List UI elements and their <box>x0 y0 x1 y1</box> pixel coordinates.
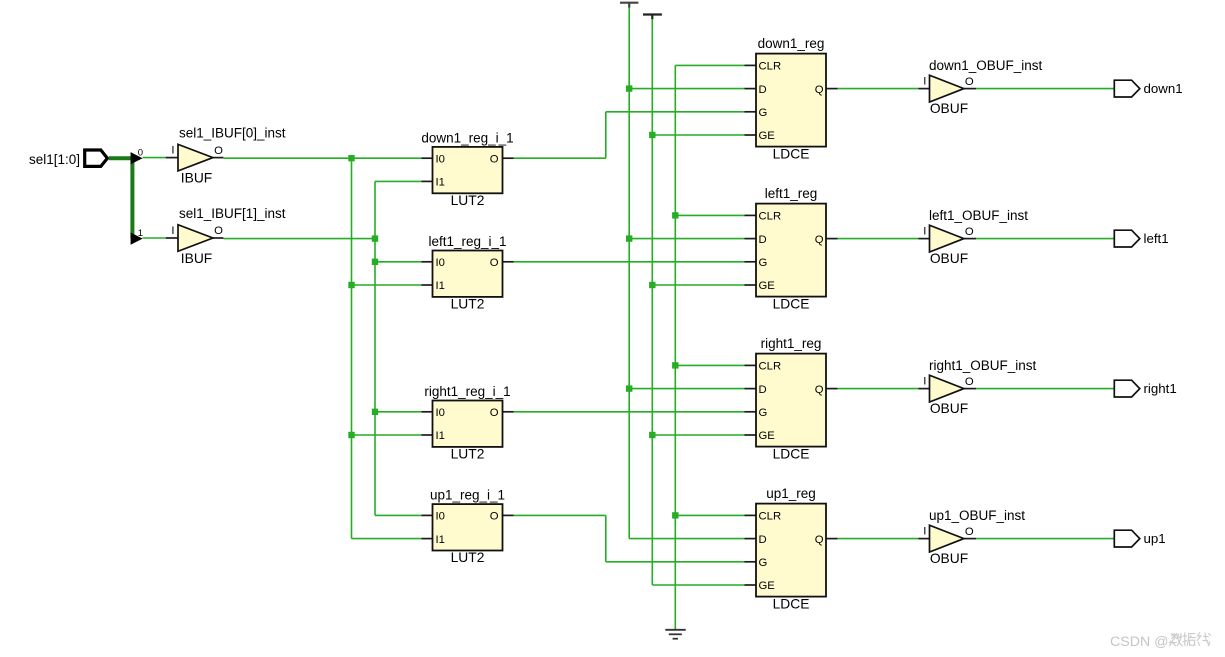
svg-text:OBUF: OBUF <box>930 101 968 116</box>
svg-text:D: D <box>759 534 767 546</box>
svg-text:I: I <box>923 225 926 237</box>
svg-text:CSDN @: CSDN @ <box>1110 634 1169 650</box>
svg-text:up1_OBUF_inst: up1_OBUF_inst <box>929 508 1025 523</box>
wire tap0 to IBUF0 input <box>143 157 166 159</box>
port up1 <box>1114 530 1140 547</box>
svg-text:CLR: CLR <box>759 61 782 73</box>
svg-text:Q: Q <box>815 84 824 96</box>
wire net left1_OBUF output to port <box>976 238 1114 240</box>
register left1_reg LDCE <box>756 204 826 297</box>
wire net sel1_IBUF[0]: vertical trunk x=351.5 <box>351 158 353 538</box>
port sel1[1:0] <box>85 150 108 166</box>
wire net sel1_IBUF[1]: branch to left1 LUT I0 <box>375 261 422 263</box>
svg-text:I: I <box>171 225 174 237</box>
wire net sel1_IBUF[1]: branch to right1 LUT I0 <box>375 411 422 413</box>
junction ground net at up1 CLR row <box>672 512 678 518</box>
svg-text:LDCE: LDCE <box>773 596 810 611</box>
wire net sel1_IBUF[0]: IBUF0 output to down1 LUT I0 <box>223 157 421 159</box>
svg-text:Q: Q <box>815 534 824 546</box>
junction power net 2 at right1 GE row <box>649 432 655 438</box>
svg-text:left1_reg: left1_reg <box>765 186 818 201</box>
wire power net 1 vertical trunk <box>628 8 630 539</box>
junction power net 2 at down1 GE row <box>649 132 655 138</box>
junction ground net at right1 CLR row <box>672 362 678 368</box>
svg-text:left1: left1 <box>1144 231 1169 246</box>
wire net up1_reg_i_1_n_0 to up1_reg G pin <box>606 561 745 563</box>
wire net right1 from right1_reg Q to OBUF <box>838 388 919 390</box>
svg-text:I0: I0 <box>436 257 445 269</box>
wire power net 2 vertical trunk <box>651 19 653 585</box>
bus sel1[1:0] horizontal segment <box>109 156 133 160</box>
wire power net 2 to right1_reg GE pin <box>652 434 744 436</box>
svg-text:G: G <box>759 257 768 269</box>
junction power net 2 at left1 GE row <box>649 282 655 288</box>
svg-text:down1_reg: down1_reg <box>758 36 825 51</box>
svg-text:LUT2: LUT2 <box>451 550 485 565</box>
svg-text:G: G <box>759 557 768 569</box>
junction power net 1 at right1 D row <box>626 385 632 391</box>
svg-text:OBUF: OBUF <box>930 251 968 266</box>
junction net sel1_IBUF[1] at left1 I0 row <box>372 259 378 265</box>
svg-text:OBUF: OBUF <box>930 401 968 416</box>
wire power net 2 to left1_reg GE pin <box>652 284 744 286</box>
junction net sel1_IBUF[1] at right1 I0 row <box>372 409 378 415</box>
wire net left1_reg_i_1_n_0 to left1_reg G pin <box>514 261 745 263</box>
bus sel1[1:0] vertical segment <box>130 156 134 238</box>
svg-text:Q: Q <box>815 234 824 246</box>
register down1_reg LDCE <box>756 54 826 147</box>
junction net sel1_IBUF[1] at IBUF1 output row <box>372 235 378 241</box>
svg-text:I0: I0 <box>436 407 445 419</box>
svg-text:D: D <box>759 384 767 396</box>
svg-text:1: 1 <box>138 228 143 239</box>
svg-text:CLR: CLR <box>759 211 782 223</box>
svg-text:D: D <box>759 84 767 96</box>
junction net sel1_IBUF[0] at left1 I1 row <box>348 282 354 288</box>
LUT2 up1_reg_i_1 <box>433 504 503 550</box>
svg-text:IBUF: IBUF <box>181 251 212 266</box>
svg-text:G: G <box>759 407 768 419</box>
ground symbol const0 <box>665 629 685 631</box>
svg-text:up1_reg_i_1: up1_reg_i_1 <box>430 488 505 503</box>
svg-text:I1: I1 <box>436 430 445 442</box>
svg-text:CLR: CLR <box>759 511 782 523</box>
wire net sel1_IBUF[0]: branch to left1 LUT I1 <box>352 284 422 286</box>
wire ground net to right1_reg CLR pin <box>675 364 744 366</box>
wire tap1 to IBUF1 input <box>143 237 166 239</box>
wire net sel1_IBUF[1]: branch to down1 LUT I1 <box>375 180 422 182</box>
svg-text:LDCE: LDCE <box>773 296 810 311</box>
svg-text:I1: I1 <box>436 177 445 189</box>
bus tap bit 1 <box>131 233 143 245</box>
wire net right1_OBUF output to port <box>976 388 1114 390</box>
svg-text:sel1[1:0]: sel1[1:0] <box>29 152 80 167</box>
wire ground net to down1_reg CLR pin <box>675 64 744 66</box>
svg-text:O: O <box>965 526 974 538</box>
wire net sel1_IBUF[1]: IBUF1 output to trunk <box>223 238 375 240</box>
wire power net 1 to up1_reg D pin <box>629 538 744 540</box>
port down1 <box>1114 80 1140 97</box>
wire net down1_OBUF output to port <box>976 88 1114 90</box>
LUT2 right1_reg_i_1 <box>433 401 503 447</box>
svg-text:I: I <box>923 75 926 87</box>
pin stubs: LUT output pins <box>503 157 514 159</box>
pin stubs: OBUF pins <box>919 88 930 90</box>
wire net up1_reg_i_1_n_0 horizontal from LUT O <box>514 514 606 516</box>
junction power net 1 at left1 D row <box>626 235 632 241</box>
svg-text:GE: GE <box>759 130 776 142</box>
svg-text:GE: GE <box>759 580 776 592</box>
LUT2 left1_reg_i_1 <box>433 251 503 297</box>
svg-text:Q: Q <box>815 384 824 396</box>
svg-text:I0: I0 <box>436 511 445 523</box>
power symbol const1 #2 <box>643 13 662 15</box>
pin stubs: registers left pins <box>745 64 757 66</box>
wire net up1_OBUF output to port <box>976 538 1114 540</box>
svg-text:down1_OBUF_inst: down1_OBUF_inst <box>929 58 1043 73</box>
svg-text:G: G <box>759 107 768 119</box>
watermark CJK glyphs <box>1169 633 1210 646</box>
wire net down1_reg_i_1_n_0 horizontal from LUT O <box>514 157 606 159</box>
LUT2 down1_reg_i_1 <box>433 147 503 193</box>
svg-text:CLR: CLR <box>759 361 782 373</box>
svg-text:I: I <box>171 144 174 156</box>
port right1 <box>1114 380 1140 397</box>
pin stubs: LUT input pins <box>422 157 433 159</box>
buffer up1_OBUF_inst OBUF <box>930 525 964 552</box>
svg-text:GE: GE <box>759 280 776 292</box>
svg-text:left1_reg_i_1: left1_reg_i_1 <box>428 234 506 249</box>
wire net up1 from up1_reg Q to OBUF <box>838 538 919 540</box>
register right1_reg LDCE <box>756 354 826 447</box>
svg-text:GE: GE <box>759 430 776 442</box>
svg-text:O: O <box>965 226 974 238</box>
pin stubs: registers Q pins <box>826 88 838 90</box>
svg-text:I1: I1 <box>436 280 445 292</box>
buffer down1_OBUF_inst OBUF <box>930 75 964 102</box>
svg-text:LDCE: LDCE <box>773 146 810 161</box>
svg-text:left1_OBUF_inst: left1_OBUF_inst <box>929 208 1028 223</box>
svg-text:sel1_IBUF[1]_inst: sel1_IBUF[1]_inst <box>179 206 286 221</box>
wire net right1_reg_i_1_n_0 to right1_reg G pin <box>514 411 745 413</box>
svg-text:D: D <box>759 234 767 246</box>
wire net sel1_IBUF[1]: branch to up1 LUT I0 <box>375 514 422 516</box>
svg-text:up1: up1 <box>1144 531 1166 546</box>
wire power net 2 to down1_reg GE pin <box>652 134 744 136</box>
svg-text:I0: I0 <box>436 153 445 165</box>
svg-text:O: O <box>490 153 499 165</box>
buffer right1_OBUF_inst OBUF <box>930 375 964 402</box>
svg-text:I: I <box>923 375 926 387</box>
svg-text:O: O <box>965 376 974 388</box>
wire net down1 from down1_reg Q to OBUF <box>838 88 919 90</box>
buffer sel1_IBUF[1]_inst IBUF <box>178 225 213 252</box>
svg-text:I1: I1 <box>436 534 445 546</box>
wire power net 1 to down1_reg D pin <box>629 88 744 90</box>
wire power net 1 to right1_reg D pin <box>629 388 744 390</box>
svg-text:LUT2: LUT2 <box>451 297 485 312</box>
junction net sel1_IBUF[0] at down1 I0 row <box>348 155 354 161</box>
power symbol const1 #1 <box>620 2 638 4</box>
pin stubs: IBUF pins <box>166 157 178 159</box>
svg-text:O: O <box>965 76 974 88</box>
svg-text:up1_reg: up1_reg <box>766 486 816 501</box>
svg-text:O: O <box>214 145 223 157</box>
svg-text:right1_reg: right1_reg <box>761 336 822 351</box>
wire ground net to left1_reg CLR pin <box>675 214 744 216</box>
svg-text:down1: down1 <box>1144 81 1183 96</box>
svg-text:right1: right1 <box>1144 381 1177 396</box>
wire net sel1_IBUF[0]: branch to right1 LUT I1 <box>352 434 422 436</box>
svg-text:down1_reg_i_1: down1_reg_i_1 <box>421 130 513 145</box>
port left1 <box>1114 230 1140 247</box>
svg-text:IBUF: IBUF <box>181 170 212 185</box>
register up1_reg LDCE <box>756 504 826 597</box>
svg-text:O: O <box>490 407 499 419</box>
svg-text:LUT2: LUT2 <box>451 193 485 208</box>
svg-text:OBUF: OBUF <box>930 551 968 566</box>
wire ground net vertical trunk <box>674 65 676 629</box>
junction power net 1 at down1 D row <box>626 85 632 91</box>
svg-text:I: I <box>923 525 926 537</box>
wire net up1_reg_i_1_n_0 vertical dropper <box>605 515 607 561</box>
junction ground net at left1 CLR row <box>672 212 678 218</box>
buffer sel1_IBUF[0]_inst IBUF <box>178 144 213 171</box>
svg-text:right1_OBUF_inst: right1_OBUF_inst <box>929 358 1037 373</box>
junction net sel1_IBUF[0] at right1 I1 row <box>348 432 354 438</box>
wire net left1 from left1_reg Q to OBUF <box>838 238 919 240</box>
wire net down1_reg_i_1_n_0 vertical riser <box>605 112 607 158</box>
svg-text:LDCE: LDCE <box>773 446 810 461</box>
svg-text:right1_reg_i_1: right1_reg_i_1 <box>424 384 510 399</box>
wire net sel1_IBUF[1]: vertical trunk x=375 <box>374 181 376 515</box>
svg-text:O: O <box>490 511 499 523</box>
svg-text:sel1_IBUF[0]_inst: sel1_IBUF[0]_inst <box>179 126 286 141</box>
wire net down1_reg_i_1_n_0 to down1_reg G pin <box>606 111 745 113</box>
buffer left1_OBUF_inst OBUF <box>930 225 964 252</box>
svg-text:LUT2: LUT2 <box>451 447 485 462</box>
bus tap bit 0 <box>131 152 143 164</box>
svg-text:O: O <box>490 257 499 269</box>
wire net sel1_IBUF[0]: branch to up1 LUT I1 <box>352 538 422 540</box>
svg-text:O: O <box>214 225 223 237</box>
wire ground net to up1_reg CLR pin <box>675 514 744 516</box>
wire power net 1 to left1_reg D pin <box>629 238 744 240</box>
svg-text:0: 0 <box>138 148 143 159</box>
wire power net 2 to up1_reg GE pin <box>652 584 744 586</box>
